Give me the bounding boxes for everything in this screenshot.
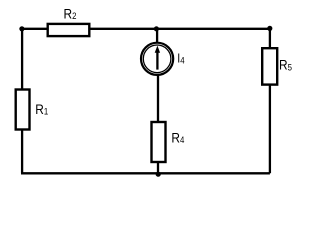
node top-right	[267, 26, 272, 31]
svg-text:R4: R4	[171, 130, 184, 146]
wire left vertical	[21, 28, 23, 174]
svg-text:R1: R1	[35, 101, 48, 117]
current source I4 (double circle with up arrow)	[141, 43, 173, 75]
node top-middle	[154, 26, 159, 31]
resistor R2	[48, 24, 90, 36]
svg-text:R2: R2	[63, 5, 76, 21]
wire middle vertical upper (node to source)	[156, 29, 158, 44]
svg-text:R5: R5	[279, 57, 292, 73]
wire middle vertical lower (source to bottom node)	[157, 74, 159, 174]
wire bottom horizontal	[21, 172, 270, 174]
node top-left	[19, 26, 24, 31]
resistor R1	[16, 90, 30, 130]
resistor R5	[262, 48, 277, 84]
wire top horizontal	[21, 28, 270, 30]
svg-text:I4: I4	[177, 52, 185, 66]
node bottom-middle	[156, 172, 161, 177]
wire right vertical	[269, 28, 271, 174]
resistor R4	[152, 122, 166, 162]
